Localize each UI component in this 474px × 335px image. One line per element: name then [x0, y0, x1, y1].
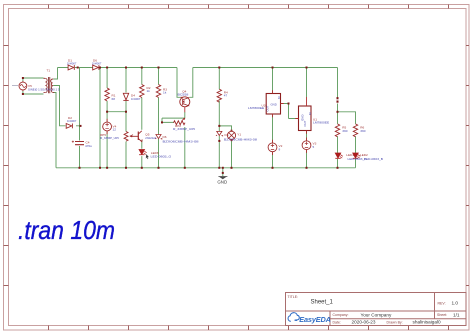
svg-text:GND: GND	[301, 115, 305, 121]
svg-text:Company:: Company:	[333, 313, 349, 317]
svg-text:T1: T1	[47, 69, 51, 73]
svg-text:Sheet_1: Sheet_1	[311, 300, 334, 306]
svg-text:2020-06-23: 2020-06-23	[352, 320, 376, 325]
svg-text:470u: 470u	[85, 144, 92, 148]
svg-text:1N4007: 1N4007	[92, 62, 102, 66]
svg-text:Drawn By:: Drawn By:	[387, 321, 403, 325]
svg-text:1/1: 1/1	[453, 312, 460, 317]
svg-text:IN: IN	[308, 113, 312, 116]
svg-text:9: 9	[279, 147, 281, 151]
svg-text:Date:: Date:	[333, 321, 341, 325]
svg-text:1.0: 1.0	[452, 301, 459, 306]
svg-text:LED-0603_B: LED-0603_B	[364, 157, 383, 161]
svg-text:IN: IN	[277, 97, 281, 100]
svg-text:5: 5	[313, 145, 315, 149]
svg-text:BZX06C6B-HM3-08: BZX06C6B-HM3-08	[224, 137, 257, 141]
svg-text:390: 390	[360, 129, 365, 133]
svg-text:TITLE:: TITLE:	[288, 295, 299, 299]
svg-text:1N4007: 1N4007	[67, 62, 77, 66]
svg-text:GND: GND	[217, 179, 227, 184]
svg-text:SINE(0 1 50) SINE(0 1 5: SINE(0 1 50) SINE(0 1 5	[28, 88, 60, 92]
svg-text:LM7800EE: LM7800EE	[313, 121, 329, 125]
svg-text:12: 12	[113, 128, 117, 132]
svg-text:1N4007: 1N4007	[67, 119, 77, 123]
svg-text:GND: GND	[271, 103, 277, 107]
svg-text:1k: 1k	[163, 91, 167, 95]
svg-text:LED-0603_G: LED-0603_G	[151, 155, 172, 159]
svg-text:68: 68	[112, 97, 116, 101]
svg-text:shalinisaigal0: shalinisaigal0	[413, 320, 442, 325]
svg-text:Y1: Y1	[237, 132, 241, 136]
svg-text:D6: D6	[225, 133, 229, 137]
svg-text:Your Company: Your Company	[361, 312, 392, 317]
svg-text:R_3386P_U05: R_3386P_U05	[173, 127, 195, 131]
svg-text:OUT: OUT	[266, 105, 270, 111]
svg-text:1N4007: 1N4007	[131, 97, 141, 101]
svg-text:Sheet:: Sheet:	[437, 313, 447, 317]
svg-text:R_3386P_U05: R_3386P_U05	[100, 136, 119, 140]
svg-text:BZX06C6B-HM3-08: BZX06C6B-HM3-08	[163, 139, 199, 143]
svg-text:BC558: BC558	[178, 93, 189, 97]
svg-text:1k: 1k	[147, 89, 151, 93]
svg-text:47: 47	[224, 94, 228, 98]
svg-text:.tran 10m: .tran 10m	[18, 215, 115, 245]
svg-text:EasyEDA: EasyEDA	[299, 315, 330, 324]
svg-text:2N2222A: 2N2222A	[145, 136, 157, 140]
svg-text:390: 390	[342, 129, 347, 133]
svg-text:REV:: REV:	[438, 302, 446, 306]
svg-text:LM7800EE: LM7800EE	[248, 106, 264, 110]
svg-text:OUT: OUT	[303, 120, 307, 126]
